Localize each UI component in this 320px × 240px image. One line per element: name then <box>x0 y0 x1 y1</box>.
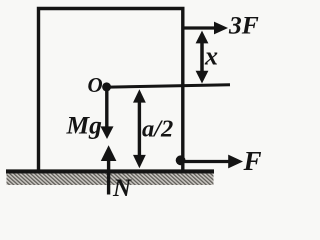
ground hatching <box>7 174 214 185</box>
svg-text:x: x <box>204 42 218 71</box>
svg-text:F: F <box>243 146 262 176</box>
svg-text:3F: 3F <box>228 10 259 39</box>
svg-text:a/2: a/2 <box>142 116 173 143</box>
node dot at F <box>176 155 186 165</box>
force F wire <box>182 160 230 163</box>
axis line through O <box>103 85 230 88</box>
svg-text:O: O <box>88 73 103 97</box>
force 3F arrowhead <box>214 22 228 35</box>
svg-text:Mg: Mg <box>66 111 103 140</box>
svg-text:N: N <box>112 175 132 202</box>
force Mg arrow <box>101 89 114 139</box>
block outline <box>39 9 183 172</box>
node O dot <box>102 82 111 91</box>
force F arrowhead <box>228 155 243 169</box>
force N arrow <box>101 145 117 194</box>
force 3F wire <box>183 26 216 29</box>
ground line <box>6 169 214 173</box>
dimension a/2 arrow <box>133 89 146 168</box>
dimension x arrow <box>196 31 209 84</box>
